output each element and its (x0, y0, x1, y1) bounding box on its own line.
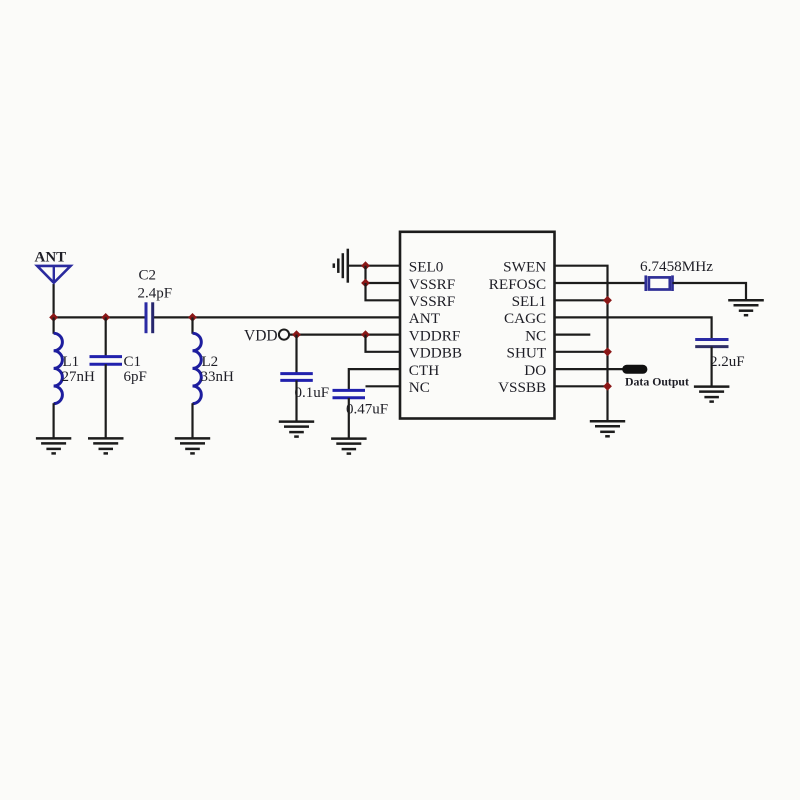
junction node VDD/0.1uF (292, 330, 301, 339)
wire 0.1uF top (295, 335, 297, 374)
pin label SWEN (503, 259, 546, 276)
wire SHUT to bus (555, 351, 608, 353)
svg-text:2.4pF: 2.4pF (138, 286, 173, 302)
label C1 (124, 354, 142, 370)
svg-text:SEL0: SEL0 (409, 259, 444, 276)
wire CTH to 0.47uF (349, 369, 400, 391)
label C2 (139, 268, 157, 284)
svg-text:SWEN: SWEN (503, 259, 546, 276)
label Data Output (625, 374, 689, 388)
wire NC stub (right) (555, 334, 591, 336)
capacitor C 0.47uF (333, 390, 366, 397)
pin label VSSRF (409, 276, 455, 293)
svg-text:REFOSC: REFOSC (489, 276, 546, 293)
ground (C1) (88, 438, 124, 453)
wire VDDBB drop (366, 335, 401, 352)
wire SEL1 to bus (555, 299, 608, 301)
svg-text:C2: C2 (139, 268, 157, 284)
antenna ANT (37, 266, 70, 318)
wire L2 bottom (191, 403, 193, 438)
pin label VSSBB (498, 379, 546, 396)
junction node SHUT (603, 347, 612, 356)
ground (crystal) (728, 300, 764, 315)
pin label CTH (409, 362, 439, 379)
label ANT (35, 250, 67, 266)
wire DO (555, 368, 625, 370)
svg-text:ANT: ANT (409, 310, 441, 327)
wire main ANT net left segment (54, 316, 146, 318)
svg-text:33nH: 33nH (201, 369, 235, 385)
svg-text:6pF: 6pF (124, 369, 147, 385)
ground (L2) (175, 438, 210, 453)
label VDD (244, 327, 278, 344)
svg-text:NC: NC (525, 327, 546, 344)
junction node C1 (101, 313, 110, 322)
IC U1 body (400, 232, 555, 419)
svg-text:27nH: 27nH (62, 369, 96, 385)
wire VSSRF drop 2 (366, 283, 401, 300)
pin label DO (524, 362, 546, 379)
wire main ANT net right segment (153, 316, 400, 318)
wire L2 top (191, 317, 193, 333)
svg-text:DO: DO (524, 362, 546, 379)
inductor L2 (193, 333, 202, 403)
pin label SHUT (507, 345, 547, 362)
capacitor C 2.2uF (695, 340, 728, 347)
value 6.7458MHz (640, 258, 713, 275)
wire SWEN to bus (555, 266, 608, 422)
wire crystal to ground (673, 283, 747, 300)
ground (0.47uF) (331, 439, 367, 454)
label L1 (63, 354, 80, 370)
svg-text:SHUT: SHUT (507, 345, 547, 362)
svg-text:NC: NC (409, 379, 430, 396)
wire CAGC to 2.2uF (555, 317, 712, 340)
junction node VSSRF (361, 279, 370, 288)
svg-text:L2: L2 (202, 354, 219, 370)
wire REFOSC to crystal (555, 282, 647, 284)
capacitor C 0.1uF (280, 374, 313, 381)
pin label NC (409, 379, 430, 396)
pin label ANT (409, 310, 441, 327)
value 0.47uF (346, 401, 388, 417)
svg-text:VSSBB: VSSBB (498, 379, 546, 396)
svg-text:SEL1: SEL1 (512, 293, 547, 310)
junction node VDDRF/VDDBB (361, 330, 370, 339)
wire NC stub (left) (366, 385, 401, 387)
svg-text:2.2uF: 2.2uF (710, 354, 745, 370)
pin label REFOSC (489, 276, 546, 293)
pin label SEL0 (409, 259, 444, 276)
svg-text:L1: L1 (63, 354, 80, 370)
capacitor C2 2.4pF (series) (146, 302, 153, 333)
value 0.1uF (295, 385, 330, 401)
wire ground to SEL0 (348, 265, 400, 267)
svg-text:VSSRF: VSSRF (409, 276, 455, 293)
wire C1 top (105, 317, 107, 357)
svg-text:C1: C1 (124, 354, 142, 370)
svg-text:ANT: ANT (35, 250, 67, 266)
wire L1 bottom (52, 403, 54, 438)
svg-text:VDDBB: VDDBB (409, 345, 462, 362)
pin label SEL1 (512, 293, 547, 310)
ground (L1) (36, 438, 71, 453)
svg-text:VSSRF: VSSRF (409, 293, 455, 310)
value 2.2uF (710, 354, 745, 370)
pin label VSSRF (409, 293, 455, 310)
junction node ANT/L1 (49, 313, 58, 322)
label L2 (202, 354, 219, 370)
junction node SEL1 (603, 296, 612, 305)
value 2.4pF (138, 286, 173, 302)
wire 0.47uF bottom (348, 398, 350, 439)
wire L1 top (52, 317, 54, 333)
svg-text:VDDRF: VDDRF (409, 327, 460, 344)
wire VDD to VDDRF pin (289, 334, 400, 336)
value 6pF (124, 369, 147, 385)
junction node VSSBB (603, 382, 612, 391)
svg-text:6.7458MHz: 6.7458MHz (640, 258, 713, 275)
pin label VDDRF (409, 327, 460, 344)
inductor L1 (54, 333, 63, 403)
wire 2.2uF bottom (710, 347, 712, 387)
svg-text:0.1uF: 0.1uF (295, 385, 330, 401)
svg-text:VDD: VDD (244, 327, 278, 344)
svg-text:CAGC: CAGC (504, 310, 546, 327)
pin label NC (525, 327, 546, 344)
wire VSSBB to bus (555, 385, 608, 387)
pin label VDDBB (409, 345, 462, 362)
wire C1 bottom (105, 364, 107, 438)
value 27nH (62, 369, 96, 385)
pin label CAGC (504, 310, 546, 327)
ground (sideways, SEL0/VSSRF) (334, 249, 348, 283)
wire VSSRF drop 1 (366, 266, 401, 283)
capacitor C1 6pF (90, 357, 123, 365)
VDD terminal (279, 330, 289, 340)
ground (bus bottom) (590, 421, 625, 436)
junction node SEL0 (361, 261, 370, 270)
value 33nH (201, 369, 235, 385)
crystal 6.7458MHz (646, 275, 673, 291)
junction node L2 (188, 313, 197, 322)
wire 0.1uF bottom (295, 380, 297, 421)
svg-text:CTH: CTH (409, 362, 439, 379)
svg-text:0.47uF: 0.47uF (346, 401, 388, 417)
ground (0.1uF) (279, 422, 314, 437)
svg-text:Data Output: Data Output (625, 374, 689, 388)
ground (2.2uF) (694, 387, 730, 402)
Data Output marker (622, 365, 647, 374)
